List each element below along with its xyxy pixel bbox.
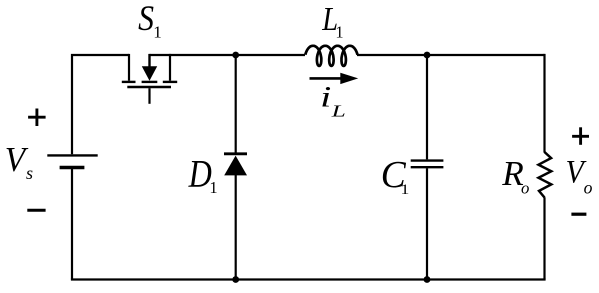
- wire right vertical lower: [543, 197, 545, 279]
- capacitor C1 top plate: [411, 159, 444, 161]
- svg-text:D: D: [188, 152, 212, 195]
- transistor S1 gate lead: [148, 88, 150, 104]
- wire diode branch lower: [235, 175, 237, 280]
- voltage source Vs battery short plate: [60, 166, 85, 169]
- inductor current arrow iL head: [340, 73, 358, 84]
- label Vo minus sign: [571, 213, 586, 216]
- inductor current arrow iL shaft: [310, 77, 344, 80]
- wire left vertical lower: [71, 169, 73, 280]
- capacitor C1 bottom plate: [411, 166, 444, 168]
- wire top-right segment: [150, 54, 306, 56]
- wire bottom: [71, 278, 546, 280]
- svg-text:S: S: [138, 0, 154, 38]
- resistor Ro zigzag: [539, 152, 552, 198]
- svg-text:s: s: [26, 163, 33, 183]
- wire top-left segment: [72, 55, 129, 154]
- wire capacitor branch lower: [426, 168, 428, 279]
- svg-text:1: 1: [335, 23, 343, 42]
- diode D1 triangle: [224, 156, 247, 176]
- svg-text:o: o: [584, 178, 593, 198]
- wire top segment inductor to output: [357, 54, 545, 56]
- svg-text:1: 1: [153, 23, 162, 42]
- svg-text:1: 1: [401, 182, 410, 198]
- transistor S1 drain lead: [128, 54, 130, 81]
- label Vo plus sign: [572, 127, 589, 145]
- transistor S1 gate plate: [127, 86, 171, 89]
- transistor S1 left channel bar: [122, 81, 136, 83]
- svg-text:o: o: [521, 179, 529, 198]
- svg-text:L: L: [330, 101, 346, 120]
- wire right vertical upper: [543, 54, 545, 153]
- wire capacitor branch upper: [426, 55, 428, 159]
- svg-text:1: 1: [209, 178, 217, 197]
- transistor S1 body arrow head: [142, 66, 157, 80]
- transistor S1 middle channel bar: [142, 81, 158, 83]
- label Vs minus sign: [27, 209, 45, 212]
- junction node top at capacitor: [424, 52, 431, 59]
- voltage source Vs battery long plate: [47, 154, 97, 156]
- svg-text:i: i: [320, 82, 331, 114]
- wire diode branch upper: [235, 55, 237, 153]
- junction node top at diode: [232, 52, 239, 59]
- transistor S1 body arrow shaft: [148, 54, 150, 68]
- transistor S1 right channel bar: [163, 81, 177, 83]
- diode D1 cathode bar: [224, 152, 247, 155]
- label Vs plus sign: [28, 109, 45, 127]
- junction node bottom at capacitor: [424, 276, 431, 283]
- transistor S1 source lead: [169, 54, 171, 81]
- inductor L1 coil: [305, 46, 357, 66]
- junction node bottom at diode: [232, 276, 239, 283]
